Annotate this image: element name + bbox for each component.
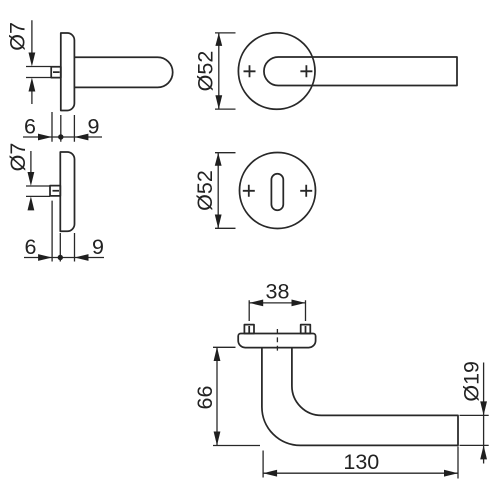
cross mark + (middle-right, left) bbox=[243, 185, 255, 197]
dim Ø19 extension lines (bottom view) bbox=[460, 415, 489, 445]
cross mark + (top-right rose, right) bbox=[300, 65, 312, 77]
dim 38 line (bottom view) bbox=[249, 302, 305, 304]
dot 6/9 (middle-left) bbox=[58, 255, 63, 260]
dim 66 extension lines (bottom view) bbox=[213, 347, 260, 445]
svg-text:Ø7: Ø7 bbox=[6, 22, 30, 51]
dim Ø7 extension lines (middle-left) bbox=[26, 186, 50, 196]
dim 38 extension lines (bottom view) bbox=[249, 300, 305, 321]
rose side view (middle-left) bbox=[60, 152, 74, 231]
cross mark + (middle-right, right) bbox=[300, 185, 312, 197]
arrowhead Ø7 top (middle-left) bbox=[28, 172, 35, 186]
arrowhead 6 left (middle-left) bbox=[38, 254, 52, 261]
escutcheon circle (middle-right) bbox=[240, 153, 316, 229]
spindle pin (middle-left) bbox=[50, 186, 60, 196]
dim Ø52 line (middle-right) bbox=[217, 153, 219, 229]
arrowhead Ø52 top (middle-right) bbox=[215, 153, 222, 166]
screw M2 (bottom view right) bbox=[301, 325, 311, 334]
arrowhead 6 left (top-left) bbox=[38, 134, 52, 141]
lever front view (top-right) bbox=[264, 57, 457, 86]
arrowhead Ø7 top (top-left) bbox=[29, 53, 36, 67]
lever bar side view (top-left) bbox=[74, 57, 172, 87]
arrowhead 38 left (bottom view) bbox=[249, 300, 263, 307]
pin slot (top-left) bbox=[53, 71, 60, 73]
dim 66 line (bottom view) bbox=[216, 347, 218, 446]
rose front view circle (top-right) bbox=[238, 33, 315, 110]
dim 130 extension lines (bottom view) bbox=[263, 447, 458, 479]
dim 130 line (bottom view) bbox=[263, 472, 458, 474]
pin slot (middle-left) bbox=[53, 190, 60, 192]
dim Ø7 line (top-left) bbox=[31, 20, 33, 104]
svg-text:Ø7: Ø7 bbox=[6, 143, 30, 172]
dim 6/9 extension lines (top-left) bbox=[52, 112, 74, 142]
svg-text:9: 9 bbox=[92, 235, 104, 259]
lever handle outline (bottom view) bbox=[262, 348, 458, 446]
arrowhead 66 top (bottom view) bbox=[214, 347, 221, 361]
svg-text:Ø52: Ø52 bbox=[193, 51, 217, 92]
dim Ø52 extension ticks (top-right) bbox=[215, 33, 236, 109]
screw M1 slot bbox=[248, 326, 250, 334]
rose side view (top-left) bbox=[61, 33, 75, 111]
arrowhead Ø19 top (bottom view) bbox=[480, 401, 487, 415]
svg-text:9: 9 bbox=[88, 115, 100, 139]
svg-text:Ø19: Ø19 bbox=[459, 361, 483, 402]
svg-text:130: 130 bbox=[343, 450, 379, 474]
dim 6/9 extension lines (middle-left) bbox=[52, 201, 74, 262]
arrowhead 38 right (bottom view) bbox=[292, 300, 306, 307]
svg-text:Ø52: Ø52 bbox=[193, 170, 217, 211]
arrowhead Ø19 bottom (bottom view) bbox=[480, 445, 487, 459]
svg-text:6: 6 bbox=[24, 115, 36, 139]
svg-text:6: 6 bbox=[25, 235, 37, 259]
arrowhead 66 bottom (bottom view) bbox=[214, 432, 221, 446]
dim Ø7 extension lines (top-left) bbox=[26, 67, 51, 78]
keyhole slot (middle-right) bbox=[271, 174, 283, 211]
dim 6/9 line (middle-left) bbox=[24, 257, 104, 259]
arrowhead Ø7 bottom (middle-left) bbox=[28, 196, 35, 210]
dim Ø52 extension ticks (middle-right) bbox=[215, 153, 236, 229]
arrowhead Ø7 bottom (top-left) bbox=[29, 78, 36, 92]
mounting plate (bottom view) bbox=[238, 334, 315, 348]
cross mark + (top-right rose, left) bbox=[244, 65, 256, 77]
dim Ø52 line (top-right) bbox=[218, 33, 220, 110]
screw M2 slot bbox=[305, 326, 307, 334]
arrowhead 9 right (top-left) bbox=[74, 134, 88, 141]
svg-text:38: 38 bbox=[266, 280, 290, 304]
dim 6/9 line (top-left) bbox=[23, 136, 102, 138]
dim Ø19 line (bottom view) bbox=[483, 363, 485, 464]
spindle pin (top-left) bbox=[51, 67, 61, 78]
arrowhead 130 right (bottom view) bbox=[444, 470, 458, 477]
arrowhead Ø52 bottom (middle-right) bbox=[215, 215, 222, 229]
arrowhead 9 right (middle-left) bbox=[75, 254, 89, 261]
screw M1 (bottom view left) bbox=[244, 325, 254, 334]
dim Ø7 line (middle-left) bbox=[30, 151, 32, 176]
arrowhead 130 left (bottom view) bbox=[263, 470, 277, 477]
centerline of plate (bottom view) bbox=[276, 329, 278, 351]
arrowhead Ø52 top (top-right) bbox=[215, 33, 222, 46]
arrowhead Ø52 bottom (top-right) bbox=[215, 95, 222, 109]
dot 6/9 (top-left) bbox=[58, 134, 63, 139]
svg-text:66: 66 bbox=[193, 386, 217, 410]
